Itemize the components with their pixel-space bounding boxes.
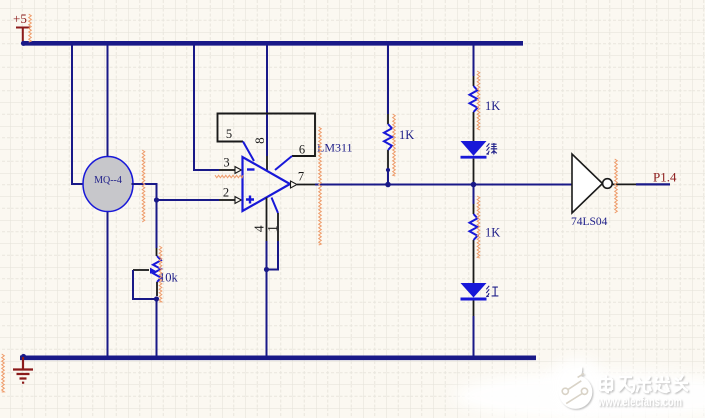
wire pin1 to pin4 tie xyxy=(267,241,279,270)
watermark glow xyxy=(454,358,705,418)
wire rail to pin3 xyxy=(194,45,219,170)
wire pin4 to gnd rail xyxy=(266,241,268,356)
pin 3 stub xyxy=(219,169,235,171)
svg-text:+5: +5 xyxy=(13,11,27,26)
op-amp plus marker xyxy=(246,196,254,204)
wire rail to MQ-4 left xyxy=(72,45,84,184)
resistor R1 pin leads xyxy=(387,114,389,168)
pin 7 output arrow xyxy=(291,181,298,188)
pin 7 stub xyxy=(297,184,315,186)
ERC marker at inverter output xyxy=(615,159,618,213)
node pins 4-1 xyxy=(264,267,269,272)
ERC marker at R3 xyxy=(477,196,480,258)
sensor MQ-4 xyxy=(83,157,133,212)
LED D1 green xyxy=(461,141,487,156)
node output-D1 junction xyxy=(471,182,477,188)
wire D2 to gnd rail xyxy=(473,316,475,356)
svg-text:8: 8 xyxy=(252,137,267,144)
wire VCC top rail xyxy=(23,41,524,46)
wire wiper loop xyxy=(133,270,157,299)
pin 8 stub xyxy=(266,156,268,170)
potentiometer 10k body xyxy=(153,256,161,282)
svg-text:7: 7 xyxy=(298,170,304,184)
node output-R1 junction xyxy=(385,182,391,188)
wire P1.4 xyxy=(636,183,670,185)
pin 5 lead xyxy=(243,142,254,162)
pin 1 lead xyxy=(272,198,279,214)
node R1 pin end xyxy=(386,168,390,172)
resistor R3 pin leads xyxy=(473,204,475,283)
resistor R2 pin leads xyxy=(473,76,475,141)
svg-text:MQ--4: MQ--4 xyxy=(94,175,122,186)
inverter output pin stub xyxy=(612,183,636,185)
wire MQ-4 right to node A xyxy=(132,184,157,248)
label red xyxy=(486,286,498,297)
ERC marker at 10k xyxy=(159,246,162,302)
wire pot to gnd rail xyxy=(156,299,158,356)
pin 6 lead xyxy=(275,156,292,170)
pin 4 stub xyxy=(266,198,268,242)
svg-text:1: 1 xyxy=(265,225,280,232)
LED D2 lead xyxy=(473,301,475,317)
label green xyxy=(486,143,497,154)
resistor R3 1K xyxy=(470,214,478,240)
wire R1 to output xyxy=(387,168,389,185)
wire GND bottom rail xyxy=(20,355,536,360)
power symbol +5 xyxy=(16,28,30,43)
wire MQ-4 bottom to gnd rail xyxy=(107,211,109,357)
node rail start xyxy=(21,41,26,46)
pin 1 stub xyxy=(277,213,279,241)
node pot bottom xyxy=(154,296,159,301)
wire rail to R1 xyxy=(387,45,389,114)
watermark text xyxy=(600,375,688,392)
ERC marker at +5 xyxy=(29,14,32,42)
inverter U2 74LS04 xyxy=(572,154,603,213)
ERC marker near pin6 xyxy=(319,127,322,245)
node rail-gnd xyxy=(21,354,26,359)
resistor R1 1K xyxy=(384,124,392,150)
svg-text:1K: 1K xyxy=(399,128,414,142)
potentiometer 10k pin lead bottom xyxy=(156,282,158,296)
ERC marker at R1 xyxy=(393,114,396,176)
wire rail to pin8 xyxy=(266,45,268,156)
balance bracket pins 5-6 xyxy=(218,114,316,157)
svg-text:1K: 1K xyxy=(485,226,500,240)
wire rail to MQ-4 top xyxy=(107,45,109,158)
wire rail to R2 xyxy=(473,45,475,76)
op-amp minus marker xyxy=(247,168,255,170)
ERC marker right of MQ-4 xyxy=(142,150,145,222)
LED D1 lead to output xyxy=(473,159,475,185)
node A junction xyxy=(154,197,159,202)
ERC marker at ground xyxy=(2,354,5,392)
svg-text:LM311: LM311 xyxy=(317,141,353,155)
potentiometer wiper arrow xyxy=(133,269,149,271)
ERC marker at R2 xyxy=(477,71,480,130)
wire node A to pin2 xyxy=(157,199,220,201)
svg-text:P1.4: P1.4 xyxy=(653,170,677,185)
svg-text:3: 3 xyxy=(223,156,229,170)
svg-text:www.elecfans.com: www.elecfans.com xyxy=(597,395,682,409)
wire junction to R3 xyxy=(473,185,475,205)
svg-text:6: 6 xyxy=(299,143,305,157)
ground xyxy=(13,357,33,383)
potentiometer 10k pin lead top xyxy=(156,248,158,256)
svg-text:2: 2 xyxy=(223,186,229,200)
resistor R2 1K xyxy=(470,86,478,112)
wire output net xyxy=(315,184,572,186)
LED D2 red xyxy=(461,283,487,298)
pin 2 stub xyxy=(219,199,235,201)
svg-text:5: 5 xyxy=(226,127,232,141)
svg-text:1K: 1K xyxy=(485,99,500,113)
ERC marker under pin3 xyxy=(215,175,243,178)
op-amp U1 LM311 triangle xyxy=(243,157,291,211)
watermark logo xyxy=(559,367,593,409)
svg-text:74LS04: 74LS04 xyxy=(571,216,608,228)
